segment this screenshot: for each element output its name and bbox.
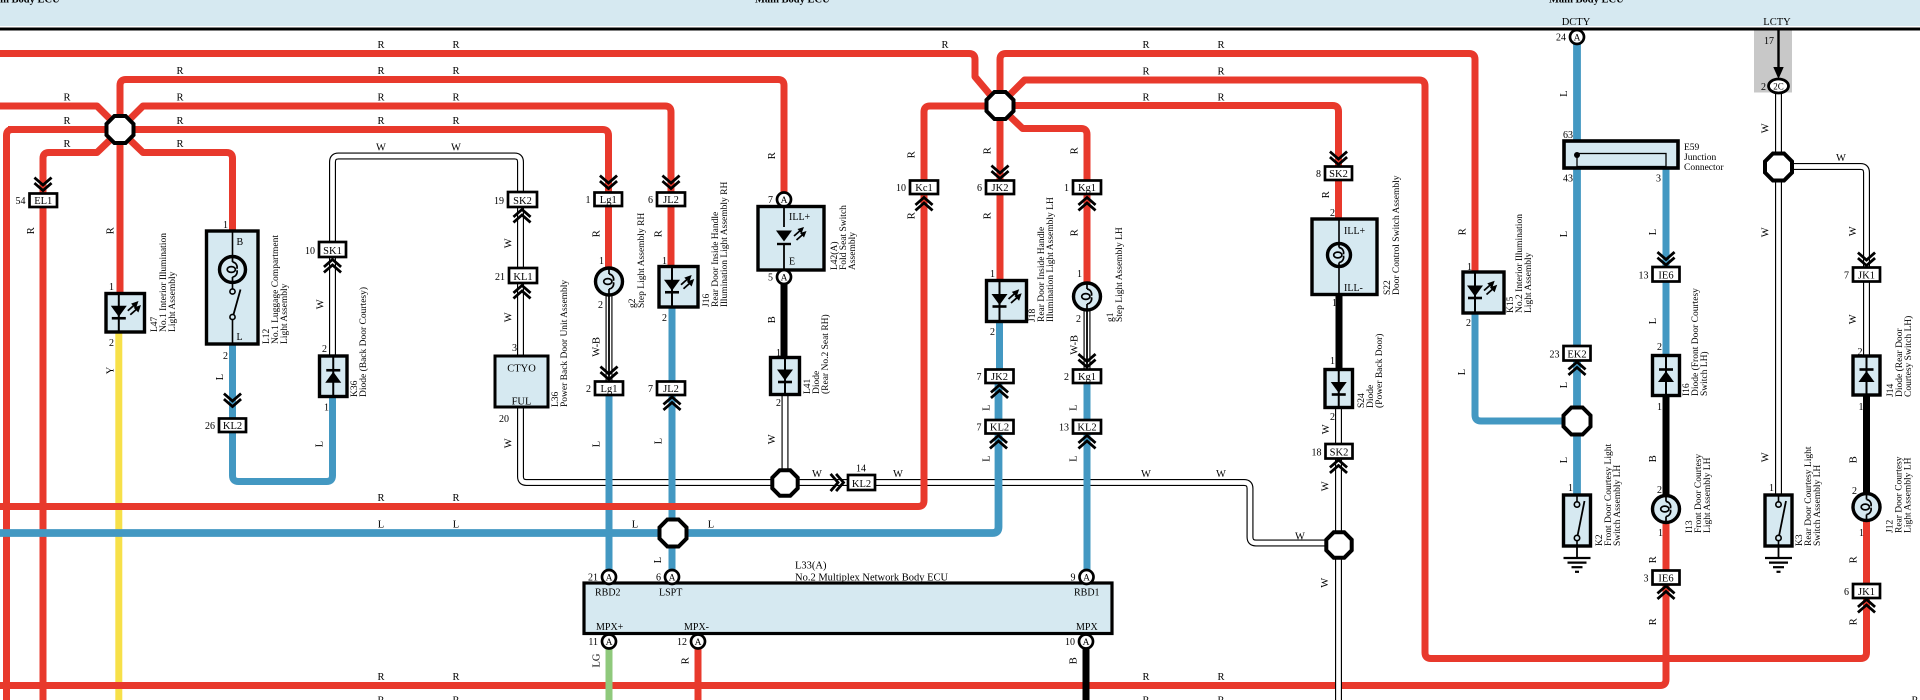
chevron KL2-13 <box>1080 436 1095 448</box>
svg-text:KL1: KL1 <box>513 272 532 283</box>
svg-text:1: 1 <box>1330 356 1335 367</box>
chevron Lg1-1 <box>601 177 616 189</box>
svg-text:Door Control Switch Assembly: Door Control Switch Assembly <box>1392 175 1402 295</box>
svg-text:W: W <box>376 143 386 154</box>
junction octagon left <box>107 116 134 143</box>
svg-text:Light Assembly: Light Assembly <box>280 283 290 344</box>
svg-text:L: L <box>1559 231 1570 237</box>
svg-text:R: R <box>1848 556 1859 563</box>
svg-text:L: L <box>1559 382 1570 388</box>
wire B S22 to S24 <box>1336 294 1343 370</box>
svg-text:21: 21 <box>588 573 598 584</box>
svg-text:2: 2 <box>662 313 667 324</box>
svg-text:43: 43 <box>1563 174 1573 185</box>
connector EK2 pin23 <box>1550 346 1591 361</box>
svg-text:CTYO: CTYO <box>507 364 536 375</box>
connector JL2 pin6 <box>648 193 685 207</box>
LCTY arrow <box>1773 31 1783 80</box>
svg-text:W: W <box>812 469 822 480</box>
svg-text:A: A <box>781 196 788 206</box>
door control switch S22 box <box>1312 219 1377 295</box>
svg-text:14: 14 <box>856 464 866 475</box>
junction octagon white S24 <box>1326 532 1351 557</box>
svg-text:B: B <box>1068 657 1079 664</box>
svg-text:A: A <box>669 573 676 583</box>
svg-text:Kc1: Kc1 <box>915 183 933 194</box>
pin circle 9A ECU <box>1071 570 1094 584</box>
svg-text:JK1: JK1 <box>1858 271 1875 282</box>
svg-text:2: 2 <box>1076 314 1081 325</box>
svg-text:9: 9 <box>1071 573 1076 584</box>
svg-text:R: R <box>982 212 993 219</box>
chevron KL2-7 <box>991 436 1006 448</box>
wire R I13 to IE6-3 to bus y685 <box>0 521 1666 686</box>
svg-text:L: L <box>1068 455 1079 461</box>
wire R junction to J18 <box>997 117 1004 281</box>
svg-text:ILL+: ILL+ <box>789 212 811 223</box>
wire L J18 to JK2-7 <box>996 321 1003 370</box>
svg-text:2: 2 <box>1657 485 1662 496</box>
connector Lg1 pin2 <box>586 382 623 396</box>
bulb g1 step light LH <box>1074 283 1101 310</box>
svg-text:1: 1 <box>1064 183 1069 194</box>
wire W junction to JK1-7 to J14 <box>1790 167 1867 357</box>
diode S24 <box>1325 370 1353 408</box>
chevron EK2 <box>1570 362 1585 374</box>
svg-text:19: 19 <box>494 196 504 207</box>
label K36 <box>350 287 369 397</box>
chevron KL2-14 <box>832 475 844 490</box>
svg-text:1: 1 <box>324 403 329 414</box>
svg-text:6: 6 <box>977 183 982 194</box>
diode L41 <box>771 358 800 395</box>
chevron Kg1-2 <box>1080 355 1095 367</box>
svg-text:(Rear No.2 Seat RH): (Rear No.2 Seat RH) <box>820 314 831 394</box>
svg-text:2: 2 <box>1330 412 1335 423</box>
chevron KL1 <box>515 286 530 298</box>
ECU L33(A) No.2 Multiplex Network Body ECU box <box>584 583 1112 634</box>
wire R Kc1 to bus y506 <box>0 194 924 507</box>
svg-text:L: L <box>314 441 325 447</box>
svg-text:LCTY: LCTY <box>1763 17 1791 28</box>
svg-text:E59: E59 <box>1684 143 1700 153</box>
wire W junction to K3 <box>1775 179 1782 497</box>
svg-text:3: 3 <box>512 343 517 354</box>
svg-text:W: W <box>1760 227 1771 237</box>
label L41 <box>803 314 831 394</box>
svg-text:2: 2 <box>776 398 781 409</box>
svg-text:R: R <box>1217 672 1224 683</box>
svg-text:R: R <box>377 493 384 504</box>
wire R EL1 down <box>40 159 47 700</box>
svg-text:Kg1: Kg1 <box>1078 183 1096 194</box>
svg-text:R: R <box>377 66 384 77</box>
wire L DCTY column <box>1573 44 1581 497</box>
label L47 <box>150 233 178 332</box>
svg-text:L: L <box>1457 369 1468 375</box>
svg-text:W: W <box>503 238 514 248</box>
chevron Kc1 <box>917 198 932 210</box>
svg-text:L: L <box>1559 457 1570 463</box>
svg-text:L: L <box>453 520 459 531</box>
svg-text:2: 2 <box>990 327 995 338</box>
svg-text:R: R <box>1069 147 1080 154</box>
svg-text:6: 6 <box>1844 587 1849 598</box>
wire W junction down to page bottom <box>1335 557 1342 700</box>
svg-text:13: 13 <box>1059 423 1069 434</box>
wire L bus to KL2-7 <box>0 383 999 533</box>
wire R ECU 12A down <box>695 649 702 700</box>
svg-text:R: R <box>1142 40 1149 51</box>
svg-text:R: R <box>377 93 384 104</box>
svg-text:5: 5 <box>768 273 773 284</box>
svg-text:R: R <box>1217 67 1224 78</box>
svg-text:6: 6 <box>648 195 653 206</box>
svg-text:A: A <box>695 638 702 648</box>
svg-text:Step Light Assembly RH: Step Light Assembly RH <box>637 213 647 308</box>
svg-text:R: R <box>653 230 664 237</box>
svg-text:2: 2 <box>1466 318 1471 329</box>
svg-text:1: 1 <box>1568 483 1573 494</box>
svg-text:KL2: KL2 <box>852 479 871 490</box>
connector Lg1 pin1 <box>586 193 623 207</box>
svg-text:R: R <box>63 93 70 104</box>
bulb S22 <box>1328 244 1351 267</box>
svg-text:L: L <box>653 438 664 444</box>
svg-text:L: L <box>981 455 992 461</box>
svg-text:Light Assembly LH: Light Assembly LH <box>1703 457 1713 533</box>
wire R line2 left to L42 <box>120 80 784 194</box>
pin circle 11A ECU <box>588 635 616 649</box>
svg-text:JL2: JL2 <box>663 384 679 395</box>
header band Main Body ECU <box>0 0 1920 26</box>
svg-text:MPX: MPX <box>1076 622 1098 633</box>
svg-text:R: R <box>1217 93 1224 104</box>
switch L12 <box>230 283 241 345</box>
label K15 <box>1506 214 1534 313</box>
wire B I16 to I13 <box>1663 395 1670 497</box>
svg-text:EK2: EK2 <box>1567 350 1586 361</box>
chevron JK1-7 <box>1859 254 1874 266</box>
connector EL1 <box>16 194 58 208</box>
connector JK2 pin6 <box>977 181 1014 195</box>
svg-text:24: 24 <box>1556 33 1566 44</box>
svg-text:7: 7 <box>768 195 773 206</box>
svg-text:1: 1 <box>586 195 591 206</box>
svg-text:R: R <box>452 696 459 700</box>
svg-text:A: A <box>781 273 788 283</box>
wire W-B g2 to Lg1-2 <box>606 294 613 382</box>
svg-text:R: R <box>1457 228 1468 235</box>
wire R junction to L47 <box>117 142 124 295</box>
label I13 <box>1685 454 1713 533</box>
svg-text:R: R <box>941 40 948 51</box>
fold seat switch L42 box <box>758 207 824 271</box>
wire L L12 to KL2-26 <box>229 344 236 419</box>
wire R Kc1 branch <box>924 106 987 181</box>
chevron SK2-8 <box>1331 153 1346 165</box>
connector IE6 pin3 <box>1644 571 1680 585</box>
svg-text:Step Light Assembly LH: Step Light Assembly LH <box>1115 227 1125 322</box>
svg-text:23: 23 <box>1550 350 1560 361</box>
connector JK2 pin7 <box>977 370 1014 384</box>
svg-text:KL2: KL2 <box>1077 423 1096 434</box>
bulb I13 front door courtesy light <box>1653 496 1680 523</box>
svg-text:Lg1: Lg1 <box>601 384 618 395</box>
svg-text:R: R <box>452 493 459 504</box>
svg-text:R: R <box>1321 191 1332 198</box>
svg-text:L: L <box>1648 229 1659 235</box>
wire W L41 to junction <box>782 394 789 472</box>
svg-text:R: R <box>377 40 384 51</box>
header separator line <box>0 28 1920 31</box>
LED assembly J16 <box>659 267 698 308</box>
svg-text:R: R <box>176 116 183 127</box>
svg-text:1: 1 <box>109 282 114 293</box>
wire L JL2-7 to ECU 6A <box>669 394 676 570</box>
connector KL2 pin14 <box>848 475 875 490</box>
svg-text:2: 2 <box>1657 342 1662 353</box>
svg-text:Switch Assembly LH: Switch Assembly LH <box>1613 465 1623 546</box>
svg-text:54: 54 <box>16 196 26 207</box>
svg-text:3: 3 <box>1644 574 1649 585</box>
svg-text:10: 10 <box>1065 637 1075 648</box>
svg-text:R: R <box>591 230 602 237</box>
svg-text:Power Back Door Unit Assembly: Power Back Door Unit Assembly <box>560 280 570 407</box>
svg-text:R: R <box>452 116 459 127</box>
connector KL2 pin7 <box>977 420 1014 434</box>
svg-text:W-B: W-B <box>1069 335 1080 355</box>
svg-text:Diode (Back Door Courtesy): Diode (Back Door Courtesy) <box>358 287 369 397</box>
connector KL2 pin13 <box>1059 420 1101 434</box>
connector Kg1 pin1 <box>1064 181 1101 195</box>
junction octagon blue bus <box>660 520 687 547</box>
svg-text:Kg1: Kg1 <box>1078 372 1096 383</box>
svg-text:R: R <box>452 40 459 51</box>
chevron JK2-7 <box>992 385 1007 397</box>
connector Kg1 pin2 <box>1064 370 1101 384</box>
svg-text:W: W <box>1320 578 1331 588</box>
svg-text:R: R <box>680 657 691 664</box>
svg-text:R: R <box>63 116 70 127</box>
chevron SK2-18 <box>1331 460 1346 472</box>
svg-text:W: W <box>1848 314 1859 324</box>
svg-text:RBD2: RBD2 <box>595 588 621 599</box>
pin circle 24A DCTY <box>1556 30 1584 44</box>
svg-text:L: L <box>237 332 243 343</box>
svg-text:W: W <box>1321 424 1332 434</box>
svg-text:EL1: EL1 <box>34 196 52 207</box>
label K3 <box>1795 446 1823 546</box>
svg-text:SK2: SK2 <box>1329 169 1348 180</box>
svg-text:IE6: IE6 <box>1658 574 1673 585</box>
junction octagon white L41 <box>772 470 797 495</box>
svg-text:2C: 2C <box>1773 82 1784 92</box>
svg-text:R: R <box>1648 556 1659 563</box>
chevron IE6-3 <box>1659 586 1674 598</box>
svg-text:3: 3 <box>1656 174 1661 185</box>
svg-text:1: 1 <box>1859 528 1864 539</box>
bulb J12 rear door courtesy light <box>1853 494 1880 521</box>
svg-text:E: E <box>789 257 795 268</box>
connector KL2 pin26 <box>205 419 246 433</box>
wire R line3 mid to JL2-6 <box>129 106 671 193</box>
svg-text:1: 1 <box>990 269 995 280</box>
connector JK1 pin6 <box>1844 584 1880 598</box>
LED assembly K15 <box>1463 272 1504 313</box>
bulb L12 <box>220 257 246 283</box>
svg-text:7: 7 <box>977 372 982 383</box>
svg-text:L: L <box>1068 404 1079 410</box>
svg-text:L: L <box>215 374 226 380</box>
svg-text:MPX+: MPX+ <box>596 622 624 633</box>
svg-text:L33(A): L33(A) <box>795 561 827 572</box>
svg-text:Connector: Connector <box>1684 163 1724 173</box>
chevron JK2-6 <box>993 167 1008 179</box>
wire W S24 to SK2-18 to junction <box>1335 407 1342 533</box>
svg-text:L: L <box>981 404 992 410</box>
svg-text:B: B <box>237 237 244 248</box>
wire R line5 to EL1 <box>43 139 111 190</box>
chevron KL2-26 <box>225 395 240 407</box>
switch K2 front door courtesy <box>1564 495 1591 546</box>
connector IE6 pin13 <box>1639 267 1680 282</box>
svg-text:Courtesy Switch LH): Courtesy Switch LH) <box>1903 316 1914 397</box>
svg-text:R: R <box>1142 67 1149 78</box>
svg-text:A: A <box>1083 638 1090 648</box>
svg-text:SK2: SK2 <box>1330 448 1349 459</box>
svg-text:FUL: FUL <box>512 397 532 408</box>
svg-text:10: 10 <box>305 246 315 257</box>
switch K3 rear door courtesy <box>1765 495 1792 546</box>
svg-text:Switch Assembly LH: Switch Assembly LH <box>1813 465 1823 546</box>
svg-text:2: 2 <box>586 384 591 395</box>
svg-text:6: 6 <box>656 573 661 584</box>
chevron SK1 <box>325 260 340 272</box>
wire L E59 pin3 to I16 <box>1663 168 1670 356</box>
svg-text:7: 7 <box>1844 271 1849 282</box>
svg-text:R: R <box>1142 672 1149 683</box>
svg-text:1: 1 <box>1769 483 1774 494</box>
label J18 <box>1028 197 1056 322</box>
svg-text:W: W <box>1848 226 1859 236</box>
connector Kc1 pin10 <box>896 181 938 195</box>
svg-text:R: R <box>63 139 70 150</box>
svg-text:W: W <box>503 438 514 448</box>
svg-text:20: 20 <box>499 414 509 425</box>
wire L J16 to JL2-7 <box>669 306 676 382</box>
svg-text:R: R <box>176 66 183 77</box>
junction octagon white LCTY <box>1765 154 1792 181</box>
svg-text:7: 7 <box>977 423 982 434</box>
svg-text:1: 1 <box>1332 298 1337 309</box>
svg-text:1: 1 <box>1077 269 1082 280</box>
chevron JL2-7 <box>665 397 680 409</box>
wire LG ECU 11A down <box>606 649 613 700</box>
svg-text:R: R <box>452 66 459 77</box>
wire R Kg1 branch <box>1009 116 1087 181</box>
svg-text:Illumination Light Assembly LH: Illumination Light Assembly LH <box>1046 197 1056 322</box>
svg-text:11: 11 <box>588 637 598 648</box>
svg-text:2: 2 <box>322 344 327 355</box>
ground K3 <box>1765 546 1792 572</box>
svg-text:B: B <box>767 316 778 323</box>
svg-text:W: W <box>451 143 461 154</box>
svg-text:L: L <box>708 520 714 531</box>
svg-text:Light Assembly: Light Assembly <box>168 271 178 332</box>
junction connector E59 box <box>1564 141 1678 168</box>
label J12 <box>1886 456 1914 533</box>
wire L Kg1-2 to ECU 9A <box>1084 383 1091 570</box>
svg-text:R: R <box>1848 618 1859 625</box>
svg-text:L: L <box>632 520 638 531</box>
svg-text:B: B <box>1648 455 1659 462</box>
bulb g2 step light RH <box>596 268 623 295</box>
wire R line2 right to JK1-6 loop <box>1009 80 1866 659</box>
svg-text:12: 12 <box>677 637 687 648</box>
svg-text:W: W <box>1836 153 1846 164</box>
label L42 <box>829 205 858 270</box>
svg-text:Main Body ECU: Main Body ECU <box>1549 0 1624 6</box>
svg-text:Y: Y <box>106 366 117 374</box>
chevron Kg1-1 <box>1080 198 1095 210</box>
svg-text:W: W <box>1295 532 1305 543</box>
svg-text:18: 18 <box>1312 448 1322 459</box>
svg-text:L: L <box>653 557 664 563</box>
svg-text:7: 7 <box>648 384 653 395</box>
svg-text:8: 8 <box>1316 169 1321 180</box>
wire B J14 to J12 <box>1863 395 1870 495</box>
chevron JL2-6 <box>664 177 679 189</box>
svg-text:1: 1 <box>1657 402 1662 413</box>
svg-text:1: 1 <box>1658 528 1663 539</box>
svg-text:W-B: W-B <box>591 337 602 357</box>
svg-text:L: L <box>1559 90 1570 96</box>
ground K2 <box>1564 546 1591 572</box>
wire L K15 to junction <box>1475 312 1565 421</box>
svg-text:A: A <box>606 573 613 583</box>
pin circle 6A ECU <box>656 570 679 584</box>
svg-text:2: 2 <box>1064 372 1069 383</box>
svg-text:L: L <box>591 441 602 447</box>
wire L KL2-26 to K36 U-turn <box>233 396 333 482</box>
svg-text:W: W <box>767 434 778 444</box>
svg-text:L: L <box>378 520 384 531</box>
chevron SK2-19 <box>515 210 530 222</box>
wire R line4 left corner down <box>7 130 13 700</box>
svg-text:MPX-: MPX- <box>684 622 709 633</box>
wire W CTYO to junction and KL2-14 run <box>521 407 1328 543</box>
junction octagon blue K2 <box>1564 408 1591 435</box>
svg-text:R: R <box>1217 40 1224 51</box>
wire L Lg1-2 to ECU 21A <box>606 394 613 570</box>
svg-text:1: 1 <box>223 220 228 231</box>
svg-text:R: R <box>906 151 917 158</box>
svg-text:W: W <box>1760 123 1771 133</box>
svg-text:W: W <box>1760 452 1771 462</box>
svg-text:A: A <box>606 638 613 648</box>
svg-text:R: R <box>1911 696 1918 700</box>
svg-text:A: A <box>1574 33 1581 43</box>
svg-text:R: R <box>106 227 117 234</box>
diode J14 <box>1853 356 1880 395</box>
svg-text:LSPT: LSPT <box>659 588 682 599</box>
connector SK2 pin19 <box>494 192 537 207</box>
svg-text:DCTY: DCTY <box>1562 17 1591 28</box>
wire R line3 right to SK2-8 <box>1014 106 1339 168</box>
svg-text:17: 17 <box>1764 36 1774 47</box>
label S24 <box>1357 334 1385 408</box>
